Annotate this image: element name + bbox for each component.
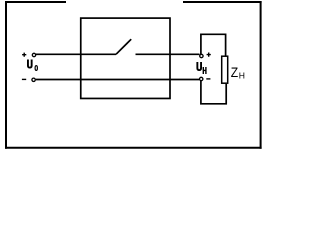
switch blade <box>116 39 131 54</box>
label UH (output voltage) <box>196 62 202 71</box>
wire: top wire from left terminal to switch pivot <box>36 53 116 55</box>
terminal: output negative <box>200 77 203 80</box>
svg-text:H: H <box>239 71 245 81</box>
svg-text:Z: Z <box>231 64 238 80</box>
label U0 (source voltage) <box>27 60 33 69</box>
wire: bottom wire left terminal to right terminal <box>36 79 199 81</box>
polarity minus sign (input) <box>22 78 26 80</box>
terminal: input negative <box>32 78 35 81</box>
wire: switch fixed contact to right terminal <box>136 53 200 55</box>
label ZH (load impedance value) <box>231 64 238 80</box>
polarity minus sign (output) <box>206 78 210 80</box>
terminal: output positive <box>200 54 203 57</box>
switch unit enclosure box <box>81 18 170 98</box>
load impedance ZH (rectangle body) <box>222 56 228 83</box>
polarity plus sign (input) <box>22 53 26 57</box>
wire: bottom connector from right - terminal down and over to load <box>201 81 226 104</box>
polarity plus sign (output) <box>207 53 211 57</box>
terminal: input positive <box>32 53 35 56</box>
wire: top connector from right + terminal up and over to load <box>201 34 226 55</box>
